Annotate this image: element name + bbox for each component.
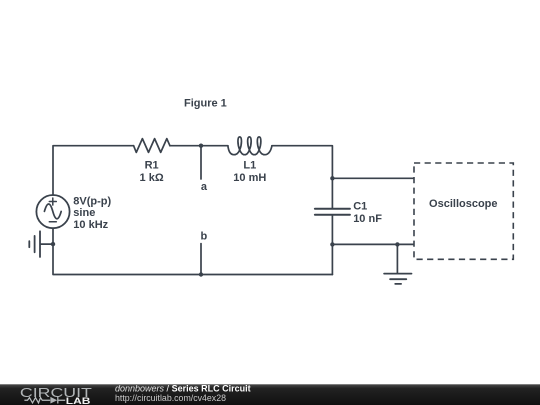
wire bottom rail: source bottom down and along bottom bbox=[53, 228, 332, 274]
svg-text:Oscilloscope: Oscilloscope bbox=[429, 198, 497, 210]
junction dot: right ground bbox=[395, 242, 399, 246]
svg-text:http://circuitlab.com/cv4ex28: http://circuitlab.com/cv4ex28 bbox=[115, 393, 226, 403]
source V1 sine wave bbox=[44, 204, 61, 219]
svg-text:b: b bbox=[201, 231, 208, 243]
svg-text:Figure 1: Figure 1 bbox=[184, 97, 227, 109]
logo diode triangle bbox=[50, 397, 57, 404]
resistor R1 zigzag bbox=[134, 139, 170, 153]
svg-text:LAB: LAB bbox=[66, 396, 91, 405]
source V1 circle bbox=[36, 195, 69, 228]
svg-text:donnbowers / Series RLC Circui: donnbowers / Series RLC Circuit bbox=[115, 383, 251, 393]
junction dot: capacitor top bbox=[330, 176, 334, 180]
ground left (at source) bbox=[29, 231, 53, 257]
svg-text:R1: R1 bbox=[145, 159, 159, 171]
junction dot: node a bbox=[199, 144, 203, 148]
logo waveform zigzag bbox=[24, 397, 65, 404]
svg-text:10 mH: 10 mH bbox=[233, 172, 266, 184]
wire: capacitor bottom junction to oscilloscope bbox=[332, 243, 413, 245]
source V1 minus sign bbox=[49, 221, 56, 223]
junction dot: node b bbox=[199, 272, 203, 276]
wire: node a stub bbox=[200, 146, 202, 179]
wire: resistor to inductor through node a bbox=[170, 145, 228, 147]
wire: inductor to top-right corner and down to capacitor top plate bbox=[272, 146, 333, 209]
capacitor C1 plates bbox=[315, 208, 350, 210]
wire top-left: source top to resistor bbox=[53, 146, 134, 195]
oscilloscope dashed box bbox=[414, 163, 513, 259]
wire: ground drop under oscilloscope wire bbox=[396, 244, 398, 273]
ground right (under oscilloscope wire) bbox=[384, 274, 411, 284]
svg-text:1 kΩ: 1 kΩ bbox=[140, 172, 164, 184]
logo diode bar and line to LAB bbox=[58, 397, 65, 404]
svg-text:L1: L1 bbox=[243, 159, 256, 171]
wire: node b stub bbox=[200, 244, 202, 275]
source V1 plus sign bbox=[49, 198, 56, 205]
svg-text:8V(p-p): 8V(p-p) bbox=[73, 196, 111, 208]
junction dot: capacitor bottom bbox=[330, 242, 334, 246]
svg-text:C1: C1 bbox=[353, 201, 367, 213]
svg-text:10 kHz: 10 kHz bbox=[73, 219, 108, 231]
svg-text:sine: sine bbox=[73, 207, 95, 219]
junction dot: left ground bbox=[51, 242, 55, 246]
wire: capacitor top junction to oscilloscope bbox=[332, 177, 413, 179]
wire: capacitor bottom plate to bottom-right corner bbox=[331, 215, 333, 274]
svg-text:a: a bbox=[201, 181, 208, 193]
inductor L1 coil bbox=[228, 137, 272, 155]
svg-text:10 nF: 10 nF bbox=[353, 213, 382, 225]
